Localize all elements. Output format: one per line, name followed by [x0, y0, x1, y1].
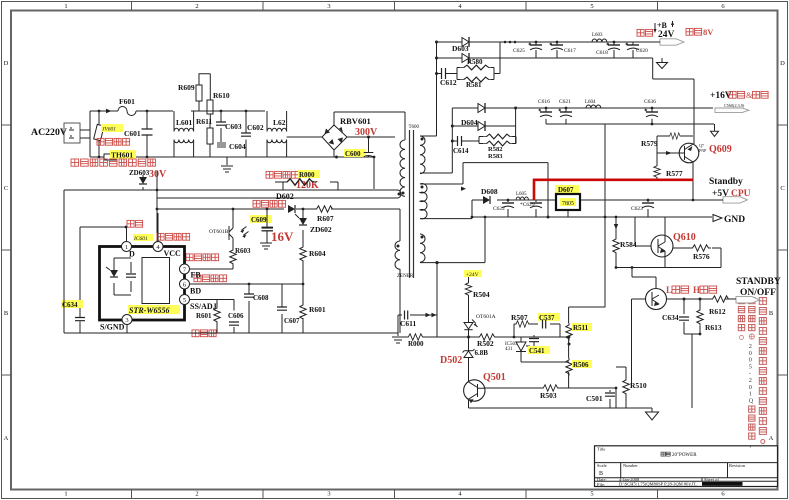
svg-text:C: C [780, 185, 784, 192]
svg-text:C604: C604 [229, 142, 246, 151]
svg-text:R609: R609 [178, 83, 195, 92]
svg-text:L62: L62 [273, 118, 286, 127]
svg-text:Q501: Q501 [483, 372, 506, 383]
svg-text:20"POWER: 20"POWER [672, 453, 697, 458]
svg-text:VCC: VCC [164, 249, 182, 258]
svg-text:16V: 16V [271, 229, 294, 244]
svg-text:D: D [129, 250, 135, 259]
svg-text:STANDBY: STANDBY [736, 277, 781, 287]
svg-text:,: , [750, 441, 752, 449]
svg-text:A: A [769, 435, 774, 442]
svg-text:8V: 8V [703, 27, 714, 37]
svg-text:PNP: PNP [699, 148, 707, 153]
svg-text:R604: R604 [309, 249, 326, 258]
svg-text:D608: D608 [481, 187, 498, 196]
svg-text:R612: R612 [709, 307, 726, 316]
svg-text:300V: 300V [355, 127, 378, 138]
svg-text:YLT2005(JT00-0000): YLT2005(JT00-0000) [703, 481, 741, 486]
svg-text:H: H [693, 285, 700, 295]
svg-text:B: B [4, 310, 9, 317]
svg-text:D: D [4, 60, 9, 67]
svg-text:R579: R579 [641, 139, 658, 148]
svg-text:C601: C601 [124, 129, 141, 138]
svg-text:L601: L601 [176, 118, 193, 127]
svg-text:R610: R610 [213, 91, 230, 100]
svg-text:C625: C625 [513, 48, 525, 54]
svg-text:D607: D607 [558, 186, 574, 194]
svg-text:Number: Number [623, 463, 638, 468]
svg-text:GND: GND [724, 215, 745, 225]
svg-text:SS/ADJ: SS/ADJ [190, 302, 217, 311]
svg-text:R000: R000 [408, 340, 424, 348]
svg-text:Revision: Revision [729, 463, 746, 468]
svg-text:C501: C501 [586, 394, 603, 403]
svg-text:Title: Title [597, 447, 605, 452]
svg-text:R503: R503 [540, 391, 557, 400]
svg-text:C611: C611 [400, 319, 417, 328]
svg-text:R576: R576 [693, 252, 710, 261]
svg-text:2: 2 [195, 3, 198, 10]
svg-text:B: B [769, 310, 774, 317]
svg-text:C616: C616 [538, 99, 550, 105]
svg-text:1: 1 [125, 244, 128, 251]
svg-text:R502: R502 [477, 339, 494, 348]
svg-text:ZENER: ZENER [397, 274, 414, 279]
svg-text:C607: C607 [284, 317, 300, 325]
svg-text:C623: C623 [631, 206, 643, 212]
svg-text:C600: C600 [345, 150, 361, 158]
svg-text:R577: R577 [666, 169, 683, 178]
svg-text:FB: FB [191, 271, 202, 280]
svg-text:C634: C634 [662, 313, 679, 322]
svg-text:R507: R507 [511, 313, 528, 322]
svg-text:*C629: *C629 [520, 202, 535, 208]
svg-text:C614: C614 [453, 147, 469, 155]
svg-text:C636: C636 [644, 99, 656, 105]
svg-text:R580: R580 [467, 58, 483, 66]
svg-text:C622: C622 [493, 206, 505, 212]
svg-text:3: 3 [327, 3, 330, 10]
svg-text:5: 5 [590, 3, 593, 10]
svg-text:BD: BD [190, 287, 201, 296]
svg-text:D502: D502 [440, 355, 462, 366]
svg-text:R000: R000 [299, 171, 315, 179]
svg-text:R603: R603 [235, 247, 251, 255]
svg-text:JV601: JV601 [102, 127, 116, 133]
svg-text:C609: C609 [251, 216, 267, 224]
svg-text:A: A [4, 435, 9, 442]
svg-text:6.8B: 6.8B [475, 349, 489, 357]
svg-text:T600: T600 [409, 125, 420, 130]
svg-text:IC601: IC601 [133, 236, 148, 242]
svg-text:C606: C606 [228, 312, 244, 320]
svg-text:431: 431 [505, 347, 513, 352]
svg-text:R581: R581 [466, 81, 482, 89]
svg-text:Q609: Q609 [709, 144, 732, 155]
svg-text:R613: R613 [705, 323, 722, 332]
svg-text:L: L [666, 285, 672, 295]
svg-text:STR-W6556: STR-W6556 [129, 306, 169, 315]
svg-text:C621: C621 [559, 99, 571, 105]
svg-text:OT601B: OT601B [209, 229, 229, 235]
svg-text:R510: R510 [630, 381, 647, 390]
svg-text:AC220V: AC220V [31, 127, 67, 138]
svg-text:L605: L605 [516, 192, 527, 197]
svg-text:R601: R601 [196, 312, 212, 320]
svg-text:R607: R607 [317, 214, 334, 223]
svg-text:D603: D603 [452, 44, 469, 53]
svg-text:TH601: TH601 [111, 151, 133, 160]
svg-text:2: 2 [195, 491, 198, 498]
svg-text:OT601A: OT601A [476, 314, 496, 320]
svg-text:C603: C603 [225, 122, 242, 131]
svg-text:Scale: Scale [597, 463, 607, 468]
svg-text:C541: C541 [529, 347, 545, 355]
svg-text:R506: R506 [573, 361, 589, 369]
svg-text:5: 5 [590, 491, 593, 498]
svg-text:C537: C537 [539, 314, 555, 322]
svg-text:R511: R511 [573, 324, 589, 332]
svg-text:R504: R504 [473, 290, 490, 299]
svg-text:7805: 7805 [562, 201, 574, 207]
svg-text:D602: D602 [276, 192, 294, 201]
svg-text:F601: F601 [119, 97, 135, 106]
svg-text:1: 1 [64, 491, 67, 498]
svg-text:+24V: +24V [466, 272, 479, 278]
svg-text:1: 1 [64, 3, 67, 10]
svg-text:&: & [746, 90, 753, 100]
svg-text:3: 3 [327, 491, 330, 498]
svg-text:C617: C617 [564, 48, 576, 54]
svg-text:D: D [780, 60, 785, 67]
svg-text:RBV601: RBV601 [340, 116, 371, 126]
svg-text:File:: File: [597, 482, 605, 487]
svg-text:C: C [4, 185, 8, 192]
svg-text:C608: C608 [253, 294, 269, 302]
svg-text:3: 3 [125, 317, 128, 324]
svg-text:R582: R582 [488, 146, 502, 153]
svg-text:ZD602: ZD602 [310, 225, 332, 234]
svg-text:S/GND: S/GND [100, 323, 125, 332]
svg-text:Q610: Q610 [673, 232, 696, 243]
svg-text:5: 5 [183, 297, 186, 304]
svg-text:ZD603: ZD603 [129, 169, 150, 177]
svg-text:C602: C602 [247, 123, 264, 132]
svg-text:C612: C612 [440, 78, 457, 87]
svg-text:L603: L603 [592, 33, 603, 38]
svg-text:C620: C620 [636, 48, 648, 54]
svg-text:R584: R584 [620, 240, 637, 249]
svg-text:L604: L604 [585, 100, 596, 105]
svg-text:D:\SCH5\1.75(QM80SP P.28-3QM 8: D:\SCH5\1.75(QM80SP P.28-3QM 80)\JT.. [619, 481, 698, 486]
svg-text:+B: +B [657, 21, 668, 30]
svg-text:R583: R583 [488, 153, 503, 160]
svg-text:C618: C618 [596, 50, 608, 56]
svg-text:R601: R601 [309, 305, 326, 314]
svg-text:30V: 30V [149, 169, 167, 180]
svg-text:Standby: Standby [709, 177, 743, 187]
